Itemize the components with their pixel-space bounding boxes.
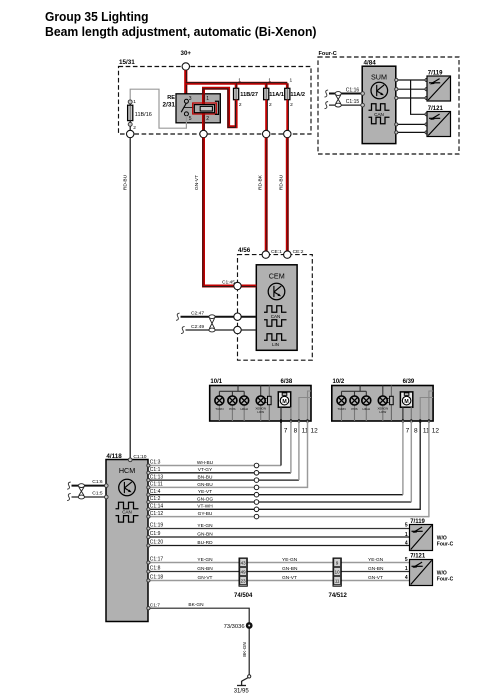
svg-text:GN-BU: GN-BU xyxy=(197,482,213,488)
svg-text:C1:3: C1:3 xyxy=(150,460,161,466)
svg-text:2: 2 xyxy=(269,102,272,108)
pin labels left headlamp xyxy=(284,428,318,435)
svg-text:C2:49: C2:49 xyxy=(191,324,204,330)
wire HCM C1:9 GN-BN to 7/119 xyxy=(147,531,410,538)
svg-text:WH-BU: WH-BU xyxy=(197,460,214,466)
svg-text:12: 12 xyxy=(311,428,319,435)
svg-text:10/1: 10/1 xyxy=(210,379,222,385)
svg-text:10/2: 10/2 xyxy=(333,379,345,385)
svg-text:5: 5 xyxy=(405,523,408,529)
wire BK-GN vertical label xyxy=(242,642,247,657)
wire HCM C1:17 YE-GN to 7/121 xyxy=(147,557,410,564)
svg-text:GN-VT: GN-VT xyxy=(368,575,383,581)
splice 73/3036 xyxy=(224,622,253,630)
HCM motor symbol xyxy=(119,479,136,496)
level sensor 7/121 (Four-C) xyxy=(427,106,451,136)
wire HCM C1:1 VT-GY to headlamp xyxy=(147,421,291,475)
svg-text:C1:15: C1:15 xyxy=(346,99,360,105)
svg-text:M: M xyxy=(282,399,286,405)
title line 1 xyxy=(45,9,149,24)
wire HCM C1:2 GN-OG to headlamp xyxy=(147,421,412,504)
pin C1:10 xyxy=(128,454,146,461)
wire SUM to 7/121 pin2 xyxy=(395,123,429,126)
svg-text:CAN: CAN xyxy=(271,314,281,319)
wire 30+ feed (red) xyxy=(184,70,188,101)
node CE:2 xyxy=(284,249,304,258)
svg-text:4: 4 xyxy=(405,540,408,546)
svg-text:C1:2: C1:2 xyxy=(150,496,161,502)
svg-text:8: 8 xyxy=(294,428,298,435)
svg-text:7/121: 7/121 xyxy=(410,554,426,560)
svg-text:C1:14: C1:14 xyxy=(150,504,164,510)
svg-text:Four-C: Four-C xyxy=(437,577,454,583)
svg-text:74/504: 74/504 xyxy=(234,593,253,599)
svg-text:C1:5: C1:5 xyxy=(92,491,103,497)
level sensor 7/121 (W/O Four-C) xyxy=(405,554,454,586)
svg-text:CE:1: CE:1 xyxy=(271,249,282,255)
node 30+ supply xyxy=(181,50,192,70)
node CE:1 xyxy=(262,249,282,258)
svg-text:7: 7 xyxy=(284,428,288,435)
svg-text:C1:20: C1:20 xyxy=(150,540,164,546)
node fusebox exit RD-BU2 xyxy=(284,100,291,138)
svg-text:74/512: 74/512 xyxy=(329,593,348,599)
svg-text:2/31: 2/31 xyxy=(163,102,176,109)
svg-text:1: 1 xyxy=(238,78,241,84)
svg-text:30+: 30+ xyxy=(181,50,192,57)
node fusebox exit RD-BK xyxy=(263,100,270,138)
svg-text:TURN: TURN xyxy=(337,407,345,411)
svg-text:POS: POS xyxy=(229,407,235,411)
svg-text:VT-GY: VT-GY xyxy=(198,467,213,473)
svg-text:C1:11: C1:11 xyxy=(150,482,163,488)
svg-text:RE: RE xyxy=(167,95,175,101)
dashed box Four-C variant xyxy=(318,51,459,154)
relay coil symbol xyxy=(193,101,219,114)
svg-text:YE-GN: YE-GN xyxy=(197,523,213,529)
svg-text:C1:13: C1:13 xyxy=(150,474,164,480)
svg-text:10: 10 xyxy=(335,569,340,574)
svg-text:LOW: LOW xyxy=(379,410,386,414)
svg-text:GN-BN: GN-BN xyxy=(197,531,213,537)
pin C1:6 wire (twisted) xyxy=(67,479,108,489)
ground 31/95 xyxy=(234,675,251,695)
svg-text:C1:17: C1:17 xyxy=(150,557,164,563)
svg-text:15/31: 15/31 xyxy=(119,59,135,66)
svg-text:VT-WH: VT-WH xyxy=(197,504,213,510)
wire HCM C1:11 GN-BU to headlamp xyxy=(147,421,308,490)
wire HCM C1:4 YE-VT to headlamp xyxy=(147,421,403,497)
svg-text:6/38: 6/38 xyxy=(281,379,293,385)
connector 74/504 xyxy=(234,558,253,599)
wire SUM to 7/119 pin1 (shared supply) xyxy=(395,78,429,81)
wire relay pin5 to fuse 11B/16 (gray) xyxy=(130,89,186,128)
svg-text:11B/27: 11B/27 xyxy=(240,92,258,98)
svg-text:49: 49 xyxy=(241,569,246,574)
CEM LIN symbol xyxy=(264,334,287,348)
level sensor 7/119 (W/O Four-C) xyxy=(405,519,454,551)
svg-text:3: 3 xyxy=(189,96,192,102)
wire HCM C1:3 WH-BU to headlamp xyxy=(147,421,281,468)
wire C2:47 (twisted) xyxy=(176,311,256,321)
svg-text:RD-BU: RD-BU xyxy=(279,174,285,190)
node fusebox exit RD-BU xyxy=(127,126,134,137)
svg-text:C1:8: C1:8 xyxy=(150,566,161,572)
wire HCM C1:13 BN-BU to headlamp xyxy=(147,421,299,482)
inline connector pair rows C1:4/C1:2 xyxy=(254,492,259,504)
svg-text:1: 1 xyxy=(133,99,136,105)
wire RD-BK fuse 11A/1 to CEM CE:1 (red) xyxy=(258,138,267,251)
svg-text:C1:6: C1:6 xyxy=(92,479,103,485)
wire C2:49 (twisted) xyxy=(181,324,256,334)
svg-text:C1:16: C1:16 xyxy=(346,87,360,93)
twisted-pair symbol CEM xyxy=(209,315,215,332)
svg-text:BN-BU: BN-BU xyxy=(198,475,213,481)
svg-text:CEM: CEM xyxy=(269,272,285,281)
svg-text:C1:9: C1:9 xyxy=(150,531,161,537)
svg-text:2: 2 xyxy=(290,102,293,108)
connector 74/512 xyxy=(329,558,348,599)
svg-text:23: 23 xyxy=(241,578,246,583)
svg-text:BK-GN: BK-GN xyxy=(188,602,204,608)
svg-text:RD-BU: RD-BU xyxy=(123,174,129,190)
svg-text:5: 5 xyxy=(405,557,408,563)
svg-text:CAN: CAN xyxy=(122,510,132,515)
svg-text:GN-VT: GN-VT xyxy=(194,175,200,190)
svg-text:2: 2 xyxy=(239,102,242,108)
svg-text:12: 12 xyxy=(432,428,440,435)
svg-text:LOW: LOW xyxy=(257,410,264,414)
svg-text:43: 43 xyxy=(241,560,246,565)
relay coil wire pin1-pin2 (red) xyxy=(202,94,206,134)
svg-text:Four-C: Four-C xyxy=(319,51,337,57)
wire HCM C1:19 YE-GN to 7/119 xyxy=(147,523,410,530)
svg-text:GN-VT: GN-VT xyxy=(198,575,213,581)
svg-text:C1:45: C1:45 xyxy=(222,280,235,286)
title line 2 xyxy=(45,24,317,39)
svg-text:1: 1 xyxy=(206,96,209,102)
svg-text:GN-BN: GN-BN xyxy=(282,566,298,572)
svg-text:11: 11 xyxy=(335,578,340,583)
SUM CAN symbol xyxy=(369,104,390,124)
svg-text:1: 1 xyxy=(405,566,408,572)
wire GN-VT relay to CEM C1:45 (red) xyxy=(194,138,234,287)
svg-text:HCM: HCM xyxy=(119,466,135,475)
svg-text:YE-GN: YE-GN xyxy=(282,557,298,563)
wire C1:16 to SUM (twisted pair) xyxy=(325,87,365,97)
svg-text:5: 5 xyxy=(189,116,192,122)
svg-text:Four-C: Four-C xyxy=(437,542,454,548)
svg-text:BU-RD: BU-RD xyxy=(197,540,213,546)
svg-text:11B/16: 11B/16 xyxy=(135,112,152,118)
svg-text:SUM: SUM xyxy=(371,72,387,81)
wire HCM C1:14 VT-WH to headlamp xyxy=(147,421,420,511)
ECU HCM 4/118 xyxy=(106,453,148,622)
svg-text:CAN: CAN xyxy=(374,112,384,117)
svg-text:GY-BU: GY-BU xyxy=(198,511,213,517)
svg-text:2: 2 xyxy=(206,116,209,122)
svg-text:8: 8 xyxy=(414,428,418,435)
node C1:45 + red stub into CEM xyxy=(222,280,256,290)
twisted-pair symbol SUM xyxy=(335,92,341,107)
wire feed bus to fuses (red) xyxy=(186,81,287,85)
wire HCM C1:20 BU-RD to 7/119 xyxy=(147,540,410,547)
fuse 11A/2 xyxy=(285,78,305,108)
CEM motor symbol xyxy=(268,283,285,300)
wire branch to 7/121 supply xyxy=(411,80,429,116)
HCM CAN symbol xyxy=(116,502,139,522)
svg-text:31/95: 31/95 xyxy=(234,689,250,695)
wire RD-BU fuse 11A/2 to CEM CE:2 (red) xyxy=(279,138,288,251)
svg-text:C1:1: C1:1 xyxy=(150,467,161,473)
svg-text:C1:10: C1:10 xyxy=(133,454,146,460)
dashed box CEM 4/56 xyxy=(238,247,313,360)
svg-text:11A/2: 11A/2 xyxy=(290,92,305,98)
svg-text:YE-GN: YE-GN xyxy=(197,557,213,563)
wire drop to fuse 11A/1 xyxy=(265,83,268,88)
svg-text:11A/1: 11A/1 xyxy=(269,92,284,98)
svg-text:C1:7: C1:7 xyxy=(150,602,160,608)
svg-text:73/3036: 73/3036 xyxy=(224,624,245,630)
relay switch contact 3-5 xyxy=(181,99,193,116)
twisted-pair symbol HCM xyxy=(78,484,84,499)
CEM CAN symbol xyxy=(264,306,287,327)
wire fuse 11B/27 to relay pin1 (red U-turn) xyxy=(203,88,236,127)
svg-text:7: 7 xyxy=(406,428,410,435)
fuse 11B/16 xyxy=(128,99,152,131)
svg-text:GN-VT: GN-VT xyxy=(282,575,297,581)
inline connector pair rows C1:3/C1:1 xyxy=(254,463,259,475)
wire drop to fuse 11B/27 xyxy=(235,83,238,88)
svg-text:C1:12: C1:12 xyxy=(150,511,164,517)
svg-text:Group 35 Lighting: Group 35 Lighting xyxy=(45,9,149,24)
svg-text:GN-BN: GN-BN xyxy=(368,566,384,572)
svg-text:6/39: 6/39 xyxy=(403,379,415,385)
svg-text:M: M xyxy=(404,399,408,405)
pin labels right headlamp xyxy=(406,428,440,435)
svg-text:GN-OG: GN-OG xyxy=(197,496,214,502)
svg-text:C1:4: C1:4 xyxy=(150,489,161,495)
svg-text:HIGH: HIGH xyxy=(240,407,248,411)
svg-text:4/56: 4/56 xyxy=(238,247,251,254)
wire RD-BU fusebox to HCM C1:10 xyxy=(123,138,131,460)
svg-text:TURN: TURN xyxy=(215,407,223,411)
ECU CEM box xyxy=(256,265,297,351)
ECU SUM 4/84 xyxy=(362,60,396,144)
svg-text:YE-VT: YE-VT xyxy=(198,489,212,495)
svg-text:C1:19: C1:19 xyxy=(150,523,164,529)
svg-text:GN-BN: GN-BN xyxy=(197,566,213,572)
wire HCM C1:12 GY-BU to headlamp xyxy=(147,421,429,519)
fuse/relay box 15/31 xyxy=(119,59,312,134)
svg-text:POS: POS xyxy=(351,407,357,411)
relay RE 2/31 xyxy=(163,94,221,123)
svg-text:HIGH: HIGH xyxy=(363,407,371,411)
node fusebox exit GN-VT xyxy=(200,130,207,137)
pin C1:5 wire (twisted) xyxy=(67,491,108,501)
svg-text:C2:47: C2:47 xyxy=(191,311,204,317)
svg-text:RD-BK: RD-BK xyxy=(258,174,264,190)
svg-text:LIN: LIN xyxy=(272,342,279,347)
wire SUM to 7/119 pin3 xyxy=(395,96,429,99)
level sensor 7/119 (Four-C) xyxy=(427,70,451,101)
svg-text:CE:2: CE:2 xyxy=(293,249,304,255)
fuse 11A/1 xyxy=(264,78,284,108)
fuse 11B/27 xyxy=(234,78,259,108)
svg-text:C1:18: C1:18 xyxy=(150,575,164,581)
svg-text:1: 1 xyxy=(405,532,408,538)
wire HCM C1:18 GN-VT to 7/121 xyxy=(147,575,410,582)
svg-text:Beam length adjustment, automa: Beam length adjustment, automatic (Bi-Xe… xyxy=(45,24,317,39)
svg-text:1: 1 xyxy=(268,78,271,84)
wire HCM C1:8 GN-BN to 7/121 xyxy=(147,566,410,573)
headlamp unit right 10/2 6/39 xyxy=(332,379,433,423)
svg-text:4: 4 xyxy=(405,575,408,581)
wire SUM to 7/119 pin2 xyxy=(395,88,429,91)
headlamp unit left 10/1 6/38 xyxy=(210,379,311,423)
wire drop to fuse 11A/2 xyxy=(286,83,289,88)
wire C1:15 to SUM (twisted pair) xyxy=(325,99,365,109)
svg-text:1: 1 xyxy=(290,78,293,84)
inline connector pair rows C1:13/C1:11 xyxy=(254,478,259,490)
wire HCM C1:7 BK-GN to ground xyxy=(147,602,249,675)
inline connector pair rows C1:14/C1:12 xyxy=(254,507,259,519)
SUM motor symbol xyxy=(371,82,388,99)
svg-text:2: 2 xyxy=(133,125,136,131)
wire SUM to 7/121 pin3 xyxy=(395,131,429,134)
svg-text:YE-GN: YE-GN xyxy=(368,557,384,563)
svg-text:BK-GN: BK-GN xyxy=(242,642,247,657)
